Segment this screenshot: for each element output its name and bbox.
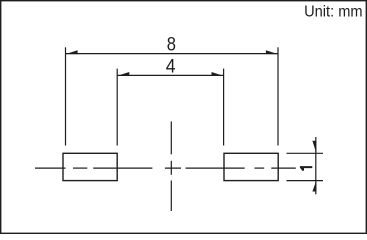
vertical centerline cross dash <box>170 161 172 175</box>
dimension 1: top arrowhead <box>312 141 316 154</box>
svg-text:8: 8 <box>167 33 176 55</box>
dimension 8: dimension line <box>66 53 279 55</box>
horizontal centerline cross dash <box>165 167 181 169</box>
svg-text:4: 4 <box>166 57 176 78</box>
dimension 4: extension line left <box>116 69 118 146</box>
horizontal centerline dash C2 <box>255 167 265 169</box>
dimension 1: value label (rotated) <box>300 166 312 171</box>
vertical centerline top segment <box>170 121 172 154</box>
horizontal centerline segment C <box>186 167 245 169</box>
dimension 1: extension line top <box>287 152 324 154</box>
horizontal centerline segment D <box>271 167 296 169</box>
left pad rectangle <box>63 153 117 180</box>
dimension 1: extension line bottom <box>287 180 324 182</box>
right pad rectangle <box>224 153 278 180</box>
dimension 8: left arrowhead <box>66 50 78 54</box>
dimension 1: dimension line vertical <box>315 137 317 194</box>
dimension 8: right arrowhead <box>266 50 278 54</box>
svg-text:Unit: mm: Unit: mm <box>304 4 363 21</box>
horizontal centerline segment B <box>93 167 152 169</box>
dimension 4: extension line right <box>223 69 225 146</box>
horizontal centerline segment A <box>35 167 66 169</box>
dimension 4: dimension line <box>117 74 223 76</box>
dimension 1: bottom arrowhead <box>312 181 316 192</box>
dimension 8: extension line left <box>65 47 67 145</box>
dimension 4: left arrowhead <box>117 72 129 76</box>
vertical centerline bottom segment <box>170 181 172 212</box>
dimension 8: extension line right <box>277 47 279 145</box>
dimension 4: right arrowhead <box>212 72 224 76</box>
horizontal centerline dash A2 <box>73 167 87 169</box>
